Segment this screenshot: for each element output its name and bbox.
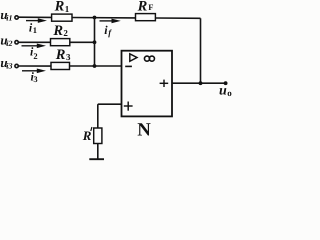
resistor R3 <box>51 62 70 69</box>
wire R1 to RF <box>72 17 136 19</box>
current arrow i1 <box>26 18 47 23</box>
current arrow i2 <box>22 44 47 49</box>
wire ui2 to R2 <box>18 41 50 43</box>
node A junction dot <box>93 16 97 20</box>
wire Rprime to ground <box>97 144 99 160</box>
svg-text:i2: i2 <box>6 39 12 48</box>
op-amp plus sign output <box>160 80 169 87</box>
svg-text:R: R <box>52 23 63 39</box>
wire RF to corner <box>155 17 200 19</box>
svg-text:1: 1 <box>65 4 70 14</box>
svg-text:R: R <box>55 47 66 63</box>
node ui1 input terminal <box>15 16 18 19</box>
junction dot row3 <box>93 64 97 68</box>
current arrow i3 <box>22 69 46 74</box>
wire feedback vertical <box>200 18 202 83</box>
wire summing bus vertical <box>94 18 96 67</box>
junction dot row2 <box>93 40 97 44</box>
wire noninverting input vertical <box>97 104 99 128</box>
wire ui1 to R1 <box>18 16 51 18</box>
svg-text:R: R <box>137 0 148 15</box>
wire output <box>172 82 226 84</box>
op-amp ideal triangle symbol <box>130 54 137 62</box>
current arrow if <box>100 19 121 24</box>
svg-text:F: F <box>148 2 153 12</box>
svg-text:2: 2 <box>33 51 37 61</box>
svg-text:o: o <box>227 88 232 98</box>
op-amp plus sign noninverting <box>124 102 133 111</box>
wire noninverting input horizontal <box>98 103 122 105</box>
svg-text:3: 3 <box>66 52 71 62</box>
svg-text:R: R <box>82 128 92 143</box>
svg-text:i3: i3 <box>6 62 12 71</box>
svg-text:3: 3 <box>33 74 37 84</box>
svg-text:2: 2 <box>63 28 68 38</box>
junction dot output <box>199 81 203 85</box>
svg-text:N: N <box>137 120 151 141</box>
wire ui3 to R3 <box>18 65 51 67</box>
resistor R2 <box>51 39 70 46</box>
svg-text:R: R <box>54 0 65 15</box>
resistor R1 <box>52 14 72 21</box>
svg-text:u: u <box>219 83 227 98</box>
resistor Rprime <box>94 128 102 144</box>
node ui3 input terminal <box>15 64 18 67</box>
label Rprime prime tick <box>91 127 92 131</box>
svg-text:f: f <box>108 28 112 38</box>
node ui2 input terminal <box>15 41 18 44</box>
wire R2 to bus <box>70 41 95 43</box>
wire R3 to opamp inverting input <box>70 65 122 67</box>
resistor RF <box>136 14 156 21</box>
op-amp infinity symbol <box>144 56 154 61</box>
op-amp minus sign <box>125 65 132 67</box>
svg-text:1: 1 <box>33 25 37 35</box>
op-amp N box <box>122 51 173 117</box>
ground <box>89 158 104 160</box>
node uo terminal dot <box>224 81 228 85</box>
svg-text:i1: i1 <box>6 14 12 23</box>
